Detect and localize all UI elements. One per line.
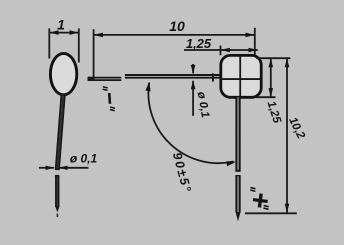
svg-text:1,25: 1,25: [186, 36, 212, 51]
dimension 1 line: [49, 32, 79, 34]
lead line through bead horizontal: [222, 78, 261, 80]
dimension 1,25 (right) line: [270, 58, 272, 97]
node + terminal label quote top: [250, 187, 256, 192]
arrowheads 1,25 right: [269, 58, 274, 67]
extension line (bead bottom edge): [256, 96, 276, 98]
arrowhead down: [191, 65, 196, 74]
arrowheads 10,2: [285, 58, 290, 67]
dimension o0,1 (left) arrowheads: [46, 166, 55, 170]
node - terminal label quote bottom: [109, 106, 115, 111]
bead (front view, rounded square): [221, 55, 261, 97]
small tick on lead: [212, 73, 214, 81]
wire break mark (left lead): [55, 168, 59, 170]
arc arrowhead right (at vertical lead): [226, 161, 236, 166]
dimension 1 extension lines: [49, 28, 79, 62]
node + terminal label quote bottom: [263, 205, 269, 210]
dimension o0,1 (horizontal lead) leader line upper: [192, 64, 194, 73]
dimension label 1,25 (right): [264, 100, 283, 126]
extension line bottom (lead end): [245, 212, 297, 214]
svg-text:10: 10: [169, 18, 185, 34]
wire tip (left lead): [55, 207, 59, 213]
vertical lead (+), upper segment: [237, 97, 239, 171]
dimension label 10,2: [286, 115, 307, 141]
dimension 1,25 (top) extension line: [220, 46, 222, 56]
svg-text:1: 1: [57, 17, 65, 33]
dimension 10,2 line: [286, 58, 288, 212]
wire break mark (right lead): [235, 170, 240, 172]
lead line through bead vertical: [239, 56, 241, 97]
dimension 1 arrowheads: [49, 30, 58, 35]
arrowhead up: [191, 80, 196, 89]
vertical lead (+), lower segment: [237, 176, 239, 212]
extension line top right (bead top edge): [256, 57, 290, 59]
wire lead (side view, lower segment): [56, 176, 58, 207]
horizontal lead, left stub: [88, 78, 121, 80]
dimension label o0,1 (vertical): [195, 91, 211, 119]
angle dimension arc 90+-5: [148, 83, 233, 164]
arc arrowhead up (at horizontal lead): [145, 82, 150, 92]
dimension 1,25 (top) arrowheads: [221, 48, 230, 53]
bead (side view ellipse): [50, 53, 76, 94]
node - terminal minus bar: [108, 93, 111, 104]
leader line lower: [192, 81, 194, 116]
dimension 10 extension lines: [94, 28, 255, 81]
wire lead (side view, upper segment): [57, 95, 63, 170]
plus sign: [252, 193, 268, 209]
dimension o0,1 (left lead) leader lines: [39, 167, 89, 169]
wire tip (right lead): [236, 212, 241, 222]
svg-text:ø 0,1: ø 0,1: [70, 152, 98, 166]
node - terminal label quote top: [102, 86, 108, 91]
dimension label 90+-5: [170, 151, 194, 195]
dimension 1,25 (top) line: [184, 49, 258, 51]
dimension 10 arrowheads: [94, 33, 103, 38]
horizontal lead, main segment: [125, 75, 221, 77]
dimension 10 line: [94, 34, 255, 36]
